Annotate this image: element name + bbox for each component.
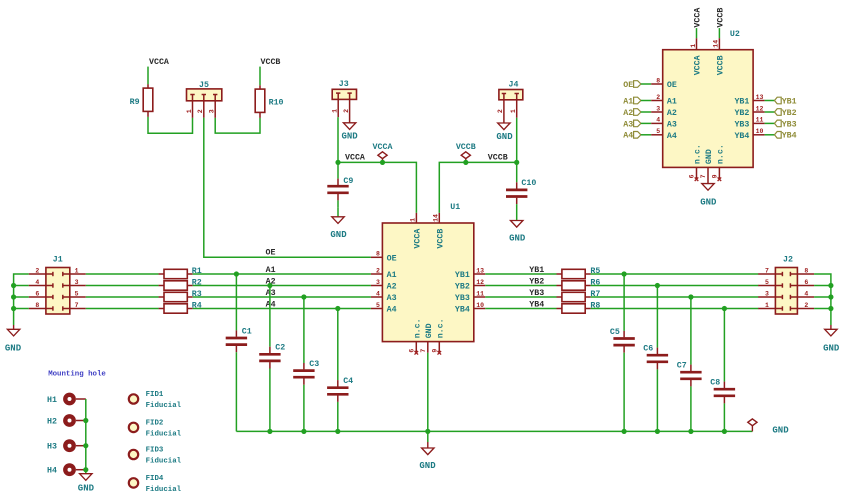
svg-text:2: 2: [35, 267, 39, 274]
svg-text:C2: C2: [275, 344, 285, 353]
svg-text:6: 6: [689, 174, 696, 178]
svg-text:Fiducial: Fiducial: [146, 431, 182, 439]
label VCCA vertical at U2 pin 1: [694, 8, 703, 28]
U2 pin 13 YB1 (right): [734, 94, 764, 107]
label YB1 (net label): [529, 266, 544, 275]
svg-text:C4: C4: [343, 377, 353, 386]
svg-text:11: 11: [476, 290, 484, 297]
svg-text:A4: A4: [667, 132, 677, 141]
svg-text:3: 3: [376, 279, 380, 286]
resistor R7: [557, 290, 601, 302]
svg-text:YB4: YB4: [782, 132, 797, 141]
svg-text:GND: GND: [419, 461, 436, 471]
wire OE from J5 pin 2 to U1 pin 8: [204, 118, 371, 257]
svg-text:J4: J4: [509, 80, 519, 89]
svg-text:YB1: YB1: [734, 98, 749, 107]
label YB4 (net label): [529, 300, 544, 309]
svg-text:YB2: YB2: [782, 109, 797, 118]
node VCCA junction at C9: [335, 160, 340, 165]
svg-text:2: 2: [343, 109, 350, 113]
capacitor C6: [643, 286, 668, 432]
wire rows J1 to R1-R4: [86, 274, 159, 309]
svg-text:11: 11: [756, 117, 764, 124]
U1 pin 12 YB2 (right): [455, 279, 485, 292]
svg-text:VCCB: VCCB: [261, 58, 281, 67]
svg-text:OE: OE: [387, 254, 397, 263]
resistor R8: [557, 302, 601, 314]
svg-text:R10: R10: [269, 98, 284, 107]
power symbol VCCB: [456, 143, 476, 165]
svg-text:VCCB: VCCB: [488, 153, 508, 162]
svg-text:2: 2: [376, 267, 380, 274]
wire J4 pin 1 down to VCCB node: [516, 118, 518, 163]
svg-text:1: 1: [510, 109, 517, 113]
svg-text:A1: A1: [667, 98, 677, 107]
power symbol VCCA: [373, 143, 393, 165]
ground below C10: [509, 212, 526, 244]
svg-text:4: 4: [656, 117, 660, 124]
svg-text:H2: H2: [47, 418, 57, 427]
hierarchical label YB1: [775, 97, 797, 106]
svg-text:A4: A4: [387, 306, 397, 315]
wire R10 to J5 pin 3: [215, 118, 260, 133]
svg-text:4: 4: [804, 290, 808, 297]
svg-text:3: 3: [765, 290, 769, 297]
hierarchical label OE: [623, 81, 641, 90]
ground below J1: [5, 325, 22, 353]
svg-text:U2: U2: [730, 30, 740, 39]
svg-text:n.c.: n.c.: [717, 144, 726, 164]
svg-text:A2: A2: [623, 109, 633, 118]
svg-text:8: 8: [376, 251, 380, 258]
U1 pin 11 YB3 (right): [455, 290, 485, 303]
svg-text:n.c.: n.c.: [436, 318, 445, 338]
svg-text:GND: GND: [341, 131, 358, 141]
U1 pin 13 YB1 (right): [455, 267, 485, 280]
svg-text:A1: A1: [387, 271, 397, 280]
node junctions on J1 ground rail: [11, 274, 29, 325]
U1 pin 3 A2 (left): [371, 279, 397, 292]
svg-text:A1: A1: [266, 266, 276, 275]
U2 pin 2 A1 (left): [651, 94, 677, 107]
pin numbers J3 1 2: [332, 80, 357, 123]
svg-text:VCCB: VCCB: [456, 143, 476, 152]
svg-text:FID1: FID1: [146, 391, 164, 399]
capacitor C1: [226, 274, 252, 431]
svg-text:4: 4: [35, 279, 39, 286]
svg-text:YB3: YB3: [734, 120, 749, 129]
svg-text:13: 13: [476, 267, 484, 274]
svg-text:2: 2: [497, 109, 504, 113]
svg-text:10: 10: [756, 128, 764, 135]
wire A1 label to U2: [641, 100, 651, 102]
svg-text:7: 7: [75, 302, 79, 309]
svg-text:5: 5: [376, 302, 380, 309]
wire VCCB to R10: [259, 67, 261, 86]
svg-text:GND: GND: [705, 149, 714, 164]
hierarchical label YB2: [775, 109, 797, 118]
wire U2 pin 14 stub: [718, 28, 720, 38]
hierarchical label YB3: [775, 120, 797, 129]
U2 pin 10 YB4 (right): [734, 128, 764, 141]
svg-text:YB4: YB4: [455, 306, 470, 315]
op-amp U1 (level shifter IC): [382, 203, 473, 341]
svg-text:H1: H1: [47, 396, 57, 405]
U2 pin 5 A4 (left): [651, 128, 677, 141]
label YB3 (net label): [529, 289, 544, 298]
svg-text:n.c.: n.c.: [694, 144, 703, 164]
wire rows U1 outputs to R5-R8: [485, 274, 556, 309]
svg-text:GND: GND: [823, 343, 840, 353]
svg-text:7: 7: [765, 267, 769, 274]
svg-text:A3: A3: [387, 294, 397, 303]
U1 pin 9 n.c. (bottom): [431, 318, 445, 354]
wire ground rail (bottom): [236, 430, 752, 432]
resistor R10: [255, 85, 283, 118]
svg-text:5: 5: [656, 128, 660, 135]
U2 pin 8 OE (left): [651, 77, 677, 90]
svg-text:GND: GND: [425, 323, 434, 338]
svg-text:A2: A2: [387, 283, 397, 292]
wire A3 label to U2: [641, 122, 651, 124]
svg-text:FID4: FID4: [146, 475, 164, 483]
svg-text:3: 3: [75, 279, 79, 286]
capacitor C8: [710, 309, 735, 432]
svg-text:GND: GND: [496, 132, 513, 142]
wire U2 to YB1 label: [765, 100, 775, 102]
svg-text:n.c.: n.c.: [413, 318, 422, 338]
resistor R4: [159, 302, 202, 314]
wire U1 pin 7 to ground rail: [427, 353, 429, 442]
svg-text:OE: OE: [623, 81, 633, 90]
fiducial FID1: [129, 391, 182, 410]
U2 pin 7 GND (bottom): [700, 149, 714, 183]
capacitor C9: [327, 162, 353, 207]
node junctions on ground rail: [267, 429, 727, 434]
svg-text:FID3: FID3: [146, 447, 164, 455]
svg-text:C9: C9: [343, 177, 353, 186]
wire A2 label to U2: [641, 111, 651, 113]
pin numbers J1 right 1 3 5 7: [29, 255, 86, 314]
svg-text:U1: U1: [450, 203, 460, 212]
wire J3 pin 1 down to VCCA node: [337, 117, 339, 162]
wire U2 pin 1 stub: [696, 28, 698, 38]
svg-text:YB2: YB2: [455, 283, 470, 292]
fiducial FID3: [129, 447, 182, 466]
U2 pin 1 VCCA (top): [690, 38, 703, 75]
wire A4 label to U2: [641, 134, 651, 136]
svg-text:YB3: YB3: [455, 294, 470, 303]
svg-text:J2: J2: [783, 255, 793, 264]
svg-text:R9: R9: [130, 98, 140, 107]
svg-text:OE: OE: [266, 248, 276, 257]
resistor R5: [557, 267, 601, 279]
hierarchical label A3: [623, 120, 641, 129]
svg-text:2: 2: [656, 94, 660, 101]
svg-text:6: 6: [804, 279, 808, 286]
svg-text:J3: J3: [339, 80, 349, 89]
U1 pin 5 A4 (left): [371, 302, 397, 315]
ground below C9: [330, 208, 347, 240]
svg-text:7: 7: [420, 349, 427, 353]
op-amp U2 (level shifter IC): [663, 30, 753, 167]
label A4 (net label): [266, 300, 276, 309]
svg-text:FID2: FID2: [146, 420, 164, 428]
svg-text:GND: GND: [509, 234, 526, 244]
svg-text:YB2: YB2: [529, 277, 544, 286]
U1 pin 7 GND (bottom): [420, 323, 434, 352]
U1 pin 14 VCCB (top): [433, 213, 446, 249]
ground at J3 pin 2: [341, 123, 358, 142]
svg-text:8: 8: [804, 267, 808, 274]
hierarchical label A2: [623, 109, 641, 118]
svg-text:YB3: YB3: [529, 289, 544, 298]
svg-text:4: 4: [376, 290, 380, 297]
wire rows R1-R4 to U1 inputs: [193, 274, 371, 309]
svg-text:YB4: YB4: [529, 300, 544, 309]
ground at J4 pin 2: [496, 123, 513, 142]
hierarchical label A1: [623, 97, 641, 106]
svg-text:YB4: YB4: [734, 132, 749, 141]
svg-text:YB1: YB1: [455, 271, 470, 280]
wire U2 to YB4 label: [765, 134, 775, 136]
svg-text:5: 5: [75, 290, 79, 297]
svg-text:2: 2: [197, 109, 204, 113]
svg-text:VCCA: VCCA: [149, 58, 169, 67]
svg-text:14: 14: [713, 40, 720, 48]
svg-text:C6: C6: [643, 345, 653, 354]
capacitor C2: [259, 286, 285, 432]
svg-text:7: 7: [700, 174, 707, 178]
svg-text:9: 9: [431, 349, 438, 353]
svg-text:Fiducial: Fiducial: [146, 402, 182, 410]
svg-text:8: 8: [35, 302, 39, 309]
svg-text:Fiducial: Fiducial: [146, 458, 182, 466]
svg-text:13: 13: [756, 94, 764, 101]
resistor R6: [557, 279, 601, 291]
svg-text:1: 1: [410, 218, 417, 222]
ground below mounting holes: [78, 474, 95, 494]
U1 pin 1 VCCA (top): [410, 213, 423, 249]
svg-text:3: 3: [209, 109, 216, 113]
label YB2 (net label): [529, 277, 544, 286]
svg-text:C8: C8: [710, 379, 720, 388]
svg-text:6: 6: [35, 290, 39, 297]
wire U2 to YB3 label: [765, 122, 775, 124]
mounting hole H4: [47, 466, 86, 476]
svg-text:YB2: YB2: [734, 109, 749, 118]
svg-text:5: 5: [765, 279, 769, 286]
svg-text:C10: C10: [521, 179, 536, 188]
wire R9 to J5 pin 1: [148, 117, 193, 133]
U1 pin 8 OE (left): [371, 251, 397, 264]
mounting hole H2: [47, 416, 86, 426]
svg-text:OE: OE: [667, 81, 677, 90]
label A3 (net label): [266, 289, 276, 298]
svg-text:YB3: YB3: [782, 120, 797, 129]
svg-text:YB1: YB1: [529, 266, 544, 275]
wire VCCA to R9: [147, 67, 149, 85]
svg-text:VCCB: VCCB: [717, 55, 726, 75]
capacitor C3: [293, 297, 319, 431]
U1 pin 4 A3 (left): [371, 290, 397, 303]
svg-text:J5: J5: [199, 81, 209, 90]
svg-text:12: 12: [476, 279, 484, 286]
svg-text:1: 1: [186, 109, 193, 113]
svg-text:VCCB: VCCB: [437, 229, 446, 249]
svg-text:VCCA: VCCA: [345, 154, 365, 163]
U2 pin 9 n.c. (bottom): [711, 144, 725, 181]
wire mounting holes ground rail: [83, 399, 88, 474]
svg-text:J1: J1: [53, 255, 63, 264]
svg-text:A4: A4: [623, 132, 633, 141]
U2 pin 12 YB2 (right): [734, 105, 764, 118]
svg-text:6: 6: [408, 349, 415, 353]
svg-text:GND: GND: [5, 343, 22, 353]
pin numbers J2 right 8 6 4 2: [758, 255, 814, 314]
svg-text:VCCA: VCCA: [373, 143, 393, 152]
svg-text:3: 3: [656, 105, 660, 112]
hierarchical label A4: [623, 132, 641, 141]
capacitor C10: [506, 162, 536, 211]
U2 pin 14 VCCB (top): [713, 38, 726, 75]
svg-text:Mounting hole: Mounting hole: [48, 370, 106, 378]
text Mounting hole: [48, 370, 106, 378]
node junctions on J2 ground rail: [814, 274, 833, 325]
svg-text:1: 1: [765, 302, 769, 309]
svg-text:YB1: YB1: [782, 97, 797, 106]
node junctions C1-C4 taps: [234, 271, 341, 311]
wire VCCA rail to U1 pin 1: [338, 162, 416, 213]
power flag GND at rail right end: [748, 419, 789, 436]
pin numbers J5 1 2 3: [186, 81, 222, 118]
svg-text:H3: H3: [47, 443, 57, 452]
label VCCA on rail: [345, 154, 365, 163]
capacitor C4: [327, 309, 353, 432]
resistor R1: [159, 267, 202, 279]
svg-text:A1: A1: [623, 97, 633, 106]
pin numbers J4 2 1: [497, 80, 523, 123]
label VCCB (net label, top): [261, 58, 281, 67]
svg-text:10: 10: [476, 302, 484, 309]
svg-text:VCCB: VCCB: [717, 8, 726, 28]
ground below U1: [419, 442, 436, 471]
svg-text:GND: GND: [772, 425, 789, 435]
label OE (net label): [266, 248, 276, 257]
label VCCB on rail: [488, 153, 508, 162]
node junctions C5-C8 taps: [622, 271, 728, 311]
svg-text:C3: C3: [309, 360, 319, 369]
svg-text:2: 2: [804, 302, 808, 309]
svg-text:A2: A2: [667, 109, 677, 118]
U1 pin 6 n.c. (bottom): [408, 318, 422, 354]
svg-text:Fiducial: Fiducial: [146, 486, 182, 494]
label VCCB vertical at U2 pin 14: [717, 8, 726, 28]
label VCCA (net label, top left): [149, 58, 169, 67]
svg-text:C5: C5: [610, 328, 620, 337]
svg-text:C1: C1: [242, 327, 252, 336]
mounting hole H1: [47, 395, 86, 405]
svg-text:GND: GND: [330, 230, 347, 240]
svg-text:A3: A3: [667, 120, 677, 129]
U1 pin 10 YB4 (right): [455, 302, 485, 315]
label A1 (net label): [266, 266, 276, 275]
svg-text:9: 9: [711, 174, 718, 178]
svg-text:VCCA: VCCA: [694, 8, 703, 28]
capacitor C7: [677, 297, 702, 431]
hierarchical label YB4: [775, 132, 797, 141]
fiducial FID2: [129, 420, 182, 439]
U1 pin 2 A1 (left): [371, 267, 397, 280]
U2 pin 3 A2 (left): [651, 105, 677, 118]
ground below J2: [823, 325, 840, 353]
svg-text:1: 1: [75, 267, 79, 274]
wire U2 to YB2 label: [765, 111, 775, 113]
svg-text:VCCA: VCCA: [414, 229, 423, 249]
svg-text:H4: H4: [47, 467, 57, 476]
U2 pin 11 YB3 (right): [734, 117, 764, 130]
svg-text:VCCA: VCCA: [694, 55, 703, 75]
svg-text:C7: C7: [677, 362, 687, 371]
svg-text:GND: GND: [78, 484, 95, 494]
U2 pin 4 A3 (left): [651, 117, 677, 130]
svg-text:1: 1: [332, 109, 339, 113]
U2 pin 6 n.c. (bottom): [689, 144, 703, 181]
svg-text:1: 1: [690, 44, 697, 48]
fiducial FID4: [129, 475, 182, 494]
svg-text:GND: GND: [700, 197, 717, 207]
label A2 (net label): [266, 277, 276, 286]
wire VCCB rail to U1 pin 14: [439, 162, 516, 213]
node VCCB junction at C10: [514, 160, 519, 165]
wire OE label to U2 pin 8: [641, 83, 651, 85]
resistor R3: [159, 290, 202, 302]
wire rows R5-R8 to J2: [591, 274, 759, 309]
resistor R2: [159, 279, 202, 291]
ground below U2: [700, 184, 717, 208]
mounting hole H3: [47, 442, 86, 452]
capacitor C5: [610, 274, 635, 431]
svg-text:14: 14: [433, 214, 440, 222]
resistor R9: [130, 84, 153, 117]
svg-text:12: 12: [756, 105, 764, 112]
svg-text:8: 8: [656, 77, 660, 84]
svg-text:A3: A3: [623, 120, 633, 129]
